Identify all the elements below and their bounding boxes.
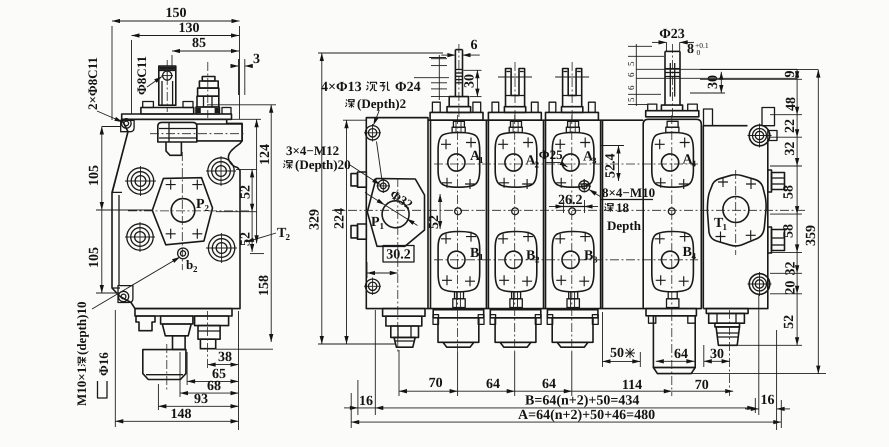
svg-text:52: 52 — [239, 185, 254, 199]
dim 130 — [132, 21, 240, 114]
svg-text:105: 105 — [87, 247, 102, 268]
svg-text:6: 6 — [626, 72, 636, 77]
svg-text:(depth)10: (depth)10 — [74, 302, 89, 355]
svg-text:30.2: 30.2 — [386, 248, 411, 263]
svg-text:1: 1 — [723, 222, 728, 232]
svg-text:64: 64 — [542, 377, 556, 392]
svg-text:359: 359 — [804, 225, 819, 246]
stem phi23 — [646, 44, 699, 120]
M12 thread hole — [377, 179, 391, 193]
phi32 circle — [382, 201, 409, 228]
svg-text:85: 85 — [192, 36, 206, 51]
main plunger — [161, 316, 193, 349]
svg-text:0: 0 — [697, 48, 701, 57]
valve section 3 (A3/B3) — [547, 115, 600, 352]
small left plug — [136, 316, 155, 331]
svg-text:52.4: 52.4 — [604, 154, 619, 179]
svg-text:Φ16: Φ16 — [96, 352, 111, 376]
plus marks — [166, 180, 203, 239]
svg-text:Φ8C11: Φ8C11 — [134, 56, 149, 95]
A pod — [438, 133, 480, 188]
svg-text:B: B — [526, 249, 535, 264]
svg-text:5: 5 — [626, 97, 636, 102]
dim 68 — [180, 352, 239, 397]
svg-text:52: 52 — [782, 315, 797, 329]
svg-text:32: 32 — [783, 142, 798, 156]
svg-text:M10×1: M10×1 — [74, 367, 89, 406]
top tabs — [143, 102, 154, 108]
svg-text:2: 2 — [286, 232, 291, 242]
svg-text:32: 32 — [784, 262, 799, 276]
svg-text:38: 38 — [218, 350, 232, 365]
bolt TL — [125, 166, 156, 196]
right plugs — [768, 170, 785, 253]
svg-text:Φ24: Φ24 — [395, 80, 421, 95]
hexagon boss P2 — [152, 178, 212, 245]
spool clevis stem section 2 — [488, 62, 541, 120]
svg-text:Φ25: Φ25 — [539, 147, 563, 162]
P2 circle — [171, 199, 195, 223]
P1 port boss — [367, 179, 424, 247]
label 2x phi8C11 — [85, 57, 123, 122]
svg-text:52: 52 — [427, 215, 442, 229]
mid circle — [455, 208, 462, 215]
dim phi23 — [652, 27, 694, 52]
svg-text:58: 58 — [782, 224, 797, 238]
bottom cap — [433, 310, 484, 318]
svg-text:130: 130 — [179, 21, 200, 36]
dim 30 outlet plug — [704, 345, 730, 367]
body outline — [112, 119, 242, 308]
top-left bolt pad — [121, 120, 134, 131]
dim 30 (section1 stem) — [463, 70, 482, 96]
svg-text:16: 16 — [761, 393, 775, 408]
svg-text:48: 48 — [784, 97, 799, 111]
inlet P centerline — [397, 178, 399, 352]
dim 158 — [207, 105, 276, 342]
top-right boss — [749, 125, 770, 146]
B pod — [438, 232, 480, 292]
dim 50 break — [603, 312, 641, 367]
dims 52/52 right — [216, 169, 264, 253]
svg-text:30: 30 — [706, 75, 721, 89]
dim 65 — [187, 352, 238, 385]
right plug — [195, 311, 229, 368]
svg-text:5: 5 — [626, 61, 636, 66]
bolt BL — [125, 222, 155, 252]
svg-text:18: 18 — [616, 200, 630, 215]
counterbore bolt bottom-left — [364, 278, 381, 296]
svg-text:1: 1 — [479, 252, 484, 262]
bolt BR — [206, 233, 237, 263]
bottom-left bolt pad — [118, 286, 133, 303]
outlet section with port T1 — [703, 108, 784, 397]
dim A= — [351, 393, 781, 428]
svg-text:70: 70 — [429, 376, 443, 391]
dim 124 — [232, 119, 273, 243]
svg-text:3×4−M12: 3×4−M12 — [286, 143, 339, 158]
dim 52 at section1 edge — [427, 194, 442, 229]
right stem nut stack — [196, 62, 219, 118]
dim 224 — [333, 120, 368, 344]
svg-text:6: 6 — [626, 85, 636, 90]
svg-text:4×Φ13: 4×Φ13 — [321, 80, 362, 95]
svg-text:70: 70 — [695, 378, 709, 393]
dim 38 — [208, 311, 239, 430]
dim 85 — [172, 36, 239, 68]
svg-text:50: 50 — [610, 346, 624, 361]
centerlines — [181, 152, 183, 270]
svg-text:6: 6 — [471, 38, 478, 53]
left plugs on inlet — [351, 172, 366, 239]
dim 3 — [231, 52, 260, 95]
svg-text:Φ23: Φ23 — [659, 27, 685, 42]
svg-text:52: 52 — [239, 232, 254, 246]
svg-text:8: 8 — [687, 42, 694, 57]
bolt TR — [206, 156, 236, 186]
small dim ladder left of stem1 — [414, 55, 449, 100]
dim 6 — [441, 38, 480, 55]
svg-text:2: 2 — [193, 264, 198, 274]
svg-text:148: 148 — [171, 407, 192, 422]
body block — [643, 119, 701, 308]
svg-text:Depth: Depth — [607, 218, 642, 233]
dim 30.2 — [367, 246, 414, 279]
top tabs — [704, 109, 713, 126]
svg-text:329: 329 — [308, 209, 323, 230]
svg-text:(Depth)2: (Depth)2 — [357, 96, 406, 111]
svg-text:64: 64 — [486, 377, 500, 392]
port b2 — [178, 248, 189, 259]
section joints — [485, 120, 487, 308]
dim 329 — [308, 53, 444, 344]
valve section 1 (A1/B1) — [433, 115, 488, 352]
svg-text:20: 20 — [784, 281, 799, 295]
dim 359 — [817, 70, 819, 374]
svg-text:B: B — [584, 249, 593, 264]
svg-text:9: 9 — [783, 71, 798, 78]
bottom plug — [706, 309, 748, 396]
label 8x4-M10 depth18 — [601, 185, 655, 233]
top spool boss — [150, 122, 246, 155]
svg-text:58: 58 — [782, 185, 797, 199]
svg-text:22: 22 — [783, 119, 798, 133]
A4 pod — [652, 121, 694, 307]
spool clevis stem section 3 — [546, 62, 599, 120]
left actuator stem cap — [159, 60, 176, 112]
callout 4x phi13 counterbore — [321, 80, 421, 181]
svg-text:68: 68 — [207, 379, 221, 394]
svg-text:16: 16 — [359, 394, 373, 409]
svg-text:26.2: 26.2 — [558, 193, 583, 208]
plates — [141, 108, 194, 115]
dim 148 — [115, 310, 238, 427]
bottom stub — [455, 292, 464, 299]
label M10x1 depth 10 — [74, 302, 89, 406]
dim 16 right — [745, 294, 790, 430]
svg-text:30: 30 — [463, 74, 478, 88]
svg-text:150: 150 — [166, 6, 187, 21]
dim 150 top — [112, 6, 240, 120]
inlet cover plate — [366, 118, 430, 309]
inlet bottom cap — [383, 309, 425, 348]
leader M10 to b2 — [92, 257, 180, 309]
body top/bottom edges (sections+inlet) — [366, 117, 428, 119]
bottom cap (tall) — [646, 115, 696, 396]
svg-text:(Depth)20: (Depth)20 — [295, 157, 351, 172]
svg-text:4: 4 — [692, 159, 697, 169]
svg-text:224: 224 — [333, 208, 348, 229]
section1 stem (rod) — [430, 44, 483, 120]
svg-text:2: 2 — [205, 203, 210, 213]
svg-text:30: 30 — [710, 347, 724, 362]
top stub — [453, 121, 464, 127]
label phi8C11 — [134, 56, 162, 95]
M10 hole on A3 + 26.2 — [549, 180, 601, 214]
svg-text:B: B — [470, 246, 479, 261]
bottom cup — [143, 344, 186, 392]
phi25 label — [539, 147, 568, 167]
bottom plate under body — [135, 309, 232, 316]
dim 52.4 — [601, 146, 624, 182]
counterbore bolt top-left — [364, 124, 381, 142]
svg-text:114: 114 — [622, 378, 642, 393]
svg-text:93: 93 — [194, 392, 208, 407]
dim 93 — [158, 384, 238, 410]
svg-text:B: B — [683, 245, 692, 260]
svg-text:2×Φ8C11: 2×Φ8C11 — [85, 57, 100, 110]
dim 8 +0.1 — [687, 41, 709, 57]
spotface symbol — [98, 381, 108, 398]
svg-text:158: 158 — [257, 275, 272, 296]
valve section 2 (A2/B2) — [490, 115, 545, 352]
svg-text:1: 1 — [380, 221, 385, 231]
dim ladder 5,6,6,5 — [626, 44, 797, 106]
dims 105/105 left — [87, 127, 152, 294]
bottom-right boss — [749, 274, 770, 295]
main centerlines — [332, 209, 806, 211]
dim 64 cap — [656, 347, 695, 362]
valve section 4 (A4/B4) — [626, 27, 797, 396]
svg-text:105: 105 — [87, 165, 102, 186]
svg-text:A=64(n+2)+50+46=480: A=64(n+2)+50+46=480 — [518, 408, 655, 423]
phi32 leader diagonal — [365, 193, 385, 205]
callout 3x4-M12 — [283, 143, 380, 185]
dim B= — [344, 310, 755, 415]
dim 30 (stem4) — [690, 72, 725, 93]
svg-text:B=64(n+2)+50=434: B=64(n+2)+50=434 — [525, 394, 639, 409]
T1 pod — [707, 175, 766, 246]
svg-text:8×4−M10: 8×4−M10 — [602, 185, 655, 200]
svg-text:64: 64 — [674, 347, 688, 362]
svg-text:3: 3 — [253, 52, 260, 67]
svg-text:1: 1 — [479, 155, 484, 165]
